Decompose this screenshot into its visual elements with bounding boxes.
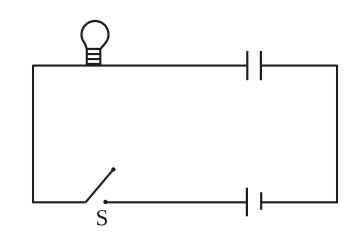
wire top: left corner to capacitor left plate (33, 65, 247, 67)
capacitor C1 left plate (246, 51, 248, 80)
battery B1 long plate (positive terminal) (246, 188, 248, 217)
lamp L1 screw thread line 2 (87, 58, 101, 60)
label S (switch) (97, 210, 107, 225)
switch S contact dot (103, 200, 107, 204)
lamp L1 screw thread line 1 (87, 53, 101, 55)
wire bottom: switch pivot to bottom-left corner (33, 201, 86, 203)
switch S blade tip dot (111, 167, 115, 171)
wire bottom: right corner to battery short plate (261, 201, 337, 203)
wire left side (32, 65, 34, 204)
switch S blade (open) (86, 169, 114, 202)
wire top: capacitor right plate to top-right corner (261, 65, 337, 67)
battery B1 short plate (negative terminal) (260, 192, 262, 210)
lamp L1 screw base (87, 49, 101, 64)
lamp L1 glass envelope (82, 21, 109, 49)
wire right side (336, 65, 338, 204)
wire bottom: battery long plate to switch contact (106, 201, 247, 203)
capacitor C1 right plate (260, 51, 262, 80)
